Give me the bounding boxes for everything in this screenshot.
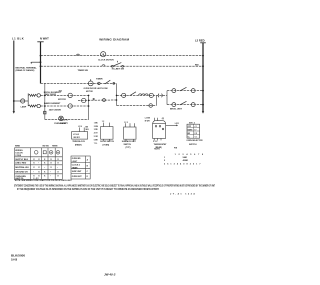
svg-text:(2): (2) bbox=[162, 118, 165, 120]
svg-text:MOTOR: MOTOR bbox=[58, 99, 66, 101]
svg-text:BROIL UNIT: BROIL UNIT bbox=[170, 109, 183, 111]
svg-text:X: X bbox=[50, 163, 52, 165]
svg-text:LIGHT: LIGHT bbox=[72, 161, 78, 163]
svg-text:THERMOSTAT: THERMOSTAT bbox=[154, 143, 168, 146]
svg-text:•: • bbox=[50, 171, 51, 173]
svg-text:JT-41 1234: JT-41 1234 bbox=[170, 193, 196, 196]
svg-text:L1 BLK: L1 BLK bbox=[12, 36, 24, 40]
svg-text:HI-LIMIT SW: HI-LIMIT SW bbox=[112, 69, 124, 71]
svg-text:2 WH: 2 WH bbox=[94, 126, 99, 128]
svg-text:TERM: TERM bbox=[52, 146, 58, 148]
svg-text:X: X bbox=[38, 167, 40, 169]
svg-text:MOTOR: MOTOR bbox=[86, 91, 93, 93]
svg-text:NOTE: NOTE bbox=[154, 148, 160, 150]
svg-text:L1 N L2: L1 N L2 bbox=[73, 134, 79, 136]
svg-text:3 RD: 3 RD bbox=[94, 129, 99, 131]
svg-text:LINE 2 RED: LINE 2 RED bbox=[15, 163, 27, 165]
svg-text:P/N: P/N bbox=[174, 148, 178, 150]
svg-text:L1 N: L1 N bbox=[78, 126, 82, 128]
svg-text:TIMER: TIMER bbox=[96, 79, 103, 81]
svg-text:BLK/5000: BLK/5000 bbox=[11, 253, 25, 257]
svg-text:WH: WH bbox=[86, 129, 90, 131]
svg-text:• X: • X bbox=[194, 126, 197, 128]
svg-text:OVEN UNIT: OVEN UNIT bbox=[72, 176, 83, 178]
svg-text:•: • bbox=[57, 167, 58, 169]
svg-text:19-08: 19-08 bbox=[11, 259, 18, 262]
svg-text:X: X bbox=[38, 171, 40, 173]
svg-text:L1 BK: L1 BK bbox=[145, 118, 151, 120]
svg-text:CODE: CODE bbox=[15, 155, 21, 157]
svg-text:NEUTRAL TERMINAL: NEUTRAL TERMINAL bbox=[16, 66, 38, 69]
svg-text:STATEMENT CONCERNING THE USE O: STATEMENT CONCERNING THE USE OF THIS WIR… bbox=[14, 184, 215, 187]
svg-text:BK W R: BK W R bbox=[74, 137, 81, 139]
svg-text:240V 3000W: 240V 3000W bbox=[45, 93, 56, 96]
svg-text:12345678: 12345678 bbox=[175, 153, 206, 156]
svg-text:SWITCH: SWITCH bbox=[124, 144, 132, 146]
svg-text:N WHT: N WHT bbox=[40, 36, 49, 40]
svg-text:45081: 45081 bbox=[183, 159, 189, 162]
svg-text:•: • bbox=[33, 171, 34, 173]
svg-text:RECEPT.: RECEPT. bbox=[60, 123, 69, 125]
svg-text:X: X bbox=[57, 163, 59, 165]
svg-text:B: B bbox=[87, 166, 89, 168]
svg-text:TIMER SW: TIMER SW bbox=[78, 70, 88, 72]
svg-text:•: • bbox=[50, 176, 51, 178]
svg-text:GROUND GR: GROUND GR bbox=[15, 171, 28, 173]
svg-text:N WH: N WH bbox=[145, 120, 150, 122]
svg-text:2: 2 bbox=[164, 160, 166, 162]
svg-text:PLUG IN: PLUG IN bbox=[60, 119, 68, 121]
svg-text:CLOCK &: CLOCK & bbox=[72, 165, 81, 167]
svg-text:D: D bbox=[87, 176, 89, 178]
svg-text:240V 2585W: 240V 2585W bbox=[49, 108, 61, 111]
svg-text:1 2: 1 2 bbox=[102, 121, 104, 123]
svg-text:DOOR SWITCH: DOOR SWITCH bbox=[100, 141, 114, 143]
svg-text:OVEN DOOR LATCH SW: OVEN DOOR LATCH SW bbox=[84, 87, 108, 90]
svg-text:1 BK: 1 BK bbox=[94, 122, 99, 124]
svg-text:261344082517: 261344082517 bbox=[164, 163, 203, 166]
svg-text:X: X bbox=[50, 167, 52, 169]
svg-text:SW 1 2: SW 1 2 bbox=[189, 122, 195, 124]
svg-text:(OVEN): (OVEN) bbox=[103, 144, 110, 146]
svg-text:5481: 5481 bbox=[183, 156, 188, 159]
svg-text:6 BR: 6 BR bbox=[94, 139, 99, 141]
svg-text:SURFACE UNIT: SURFACE UNIT bbox=[122, 140, 137, 143]
svg-text:•: • bbox=[44, 167, 45, 169]
svg-text:SURF UNIT: SURF UNIT bbox=[72, 171, 82, 173]
svg-text:4 GY: 4 GY bbox=[94, 132, 99, 135]
svg-text:TIMER: TIMER bbox=[72, 167, 78, 169]
svg-text:X: X bbox=[57, 171, 59, 173]
svg-text:7 YL: 7 YL bbox=[94, 143, 98, 145]
svg-text:•: • bbox=[38, 163, 39, 165]
svg-text:NEUTRAL WH: NEUTRAL WH bbox=[15, 166, 29, 169]
svg-text:CLOCK MOTOR: CLOCK MOTOR bbox=[98, 59, 114, 61]
svg-text:5 OR: 5 OR bbox=[94, 136, 99, 138]
svg-text:OVEN SELECTOR: OVEN SELECTOR bbox=[186, 140, 203, 142]
svg-text:LAMP: LAMP bbox=[21, 106, 27, 109]
svg-text:WIRE: WIRE bbox=[15, 145, 21, 147]
svg-text:IF THE REQUIRED VOLTAGE IS AS: IF THE REQUIRED VOLTAGE IS AS SPECIFIED … bbox=[17, 188, 159, 191]
svg-text:X: X bbox=[44, 176, 46, 178]
svg-text:A: A bbox=[87, 158, 89, 161]
svg-text:RED: RED bbox=[195, 64, 199, 66]
svg-text:BAKE ELEMENT: BAKE ELEMENT bbox=[44, 102, 61, 105]
svg-text:JW-40-2: JW-40-2 bbox=[104, 272, 116, 276]
svg-text:X: X bbox=[33, 163, 35, 165]
svg-text:X: X bbox=[33, 167, 35, 169]
svg-text:X: X bbox=[44, 163, 46, 165]
svg-text:L2 R: L2 R bbox=[175, 123, 180, 125]
svg-text:1 2 3: 1 2 3 bbox=[124, 122, 128, 124]
svg-text:SW NO: SW NO bbox=[42, 146, 49, 148]
svg-text:(REAR OF RANGE): (REAR OF RANGE) bbox=[16, 69, 35, 72]
svg-text:SUPPLY BLK: SUPPLY BLK bbox=[15, 159, 28, 161]
svg-text:X: X bbox=[57, 176, 59, 178]
svg-text:X X X: X X X bbox=[153, 141, 158, 143]
svg-text:*NOTE: SEE WIRING CODE CHART F: *NOTE: SEE WIRING CODE CHART FOR COLOR O… bbox=[14, 179, 72, 182]
svg-text:CL: CL bbox=[188, 136, 190, 138]
svg-text:30A: 30A bbox=[59, 89, 63, 92]
svg-text:OFF: OFF bbox=[188, 126, 191, 128]
svg-text:(REAR): (REAR) bbox=[75, 144, 82, 147]
svg-text:(TYP): (TYP) bbox=[126, 147, 131, 149]
svg-text:L2 RED: L2 RED bbox=[195, 39, 205, 43]
svg-text:TERM BLOCK: TERM BLOCK bbox=[72, 141, 85, 143]
svg-text:SWITCH: SWITCH bbox=[189, 144, 197, 146]
svg-text:C: C bbox=[87, 171, 89, 173]
svg-text:1: 1 bbox=[164, 157, 166, 159]
svg-text:WIRING DIAGRAM: WIRING DIAGRAM bbox=[99, 38, 129, 42]
svg-text:OVEN IND: OVEN IND bbox=[72, 158, 81, 160]
svg-text:X: X bbox=[44, 171, 46, 173]
